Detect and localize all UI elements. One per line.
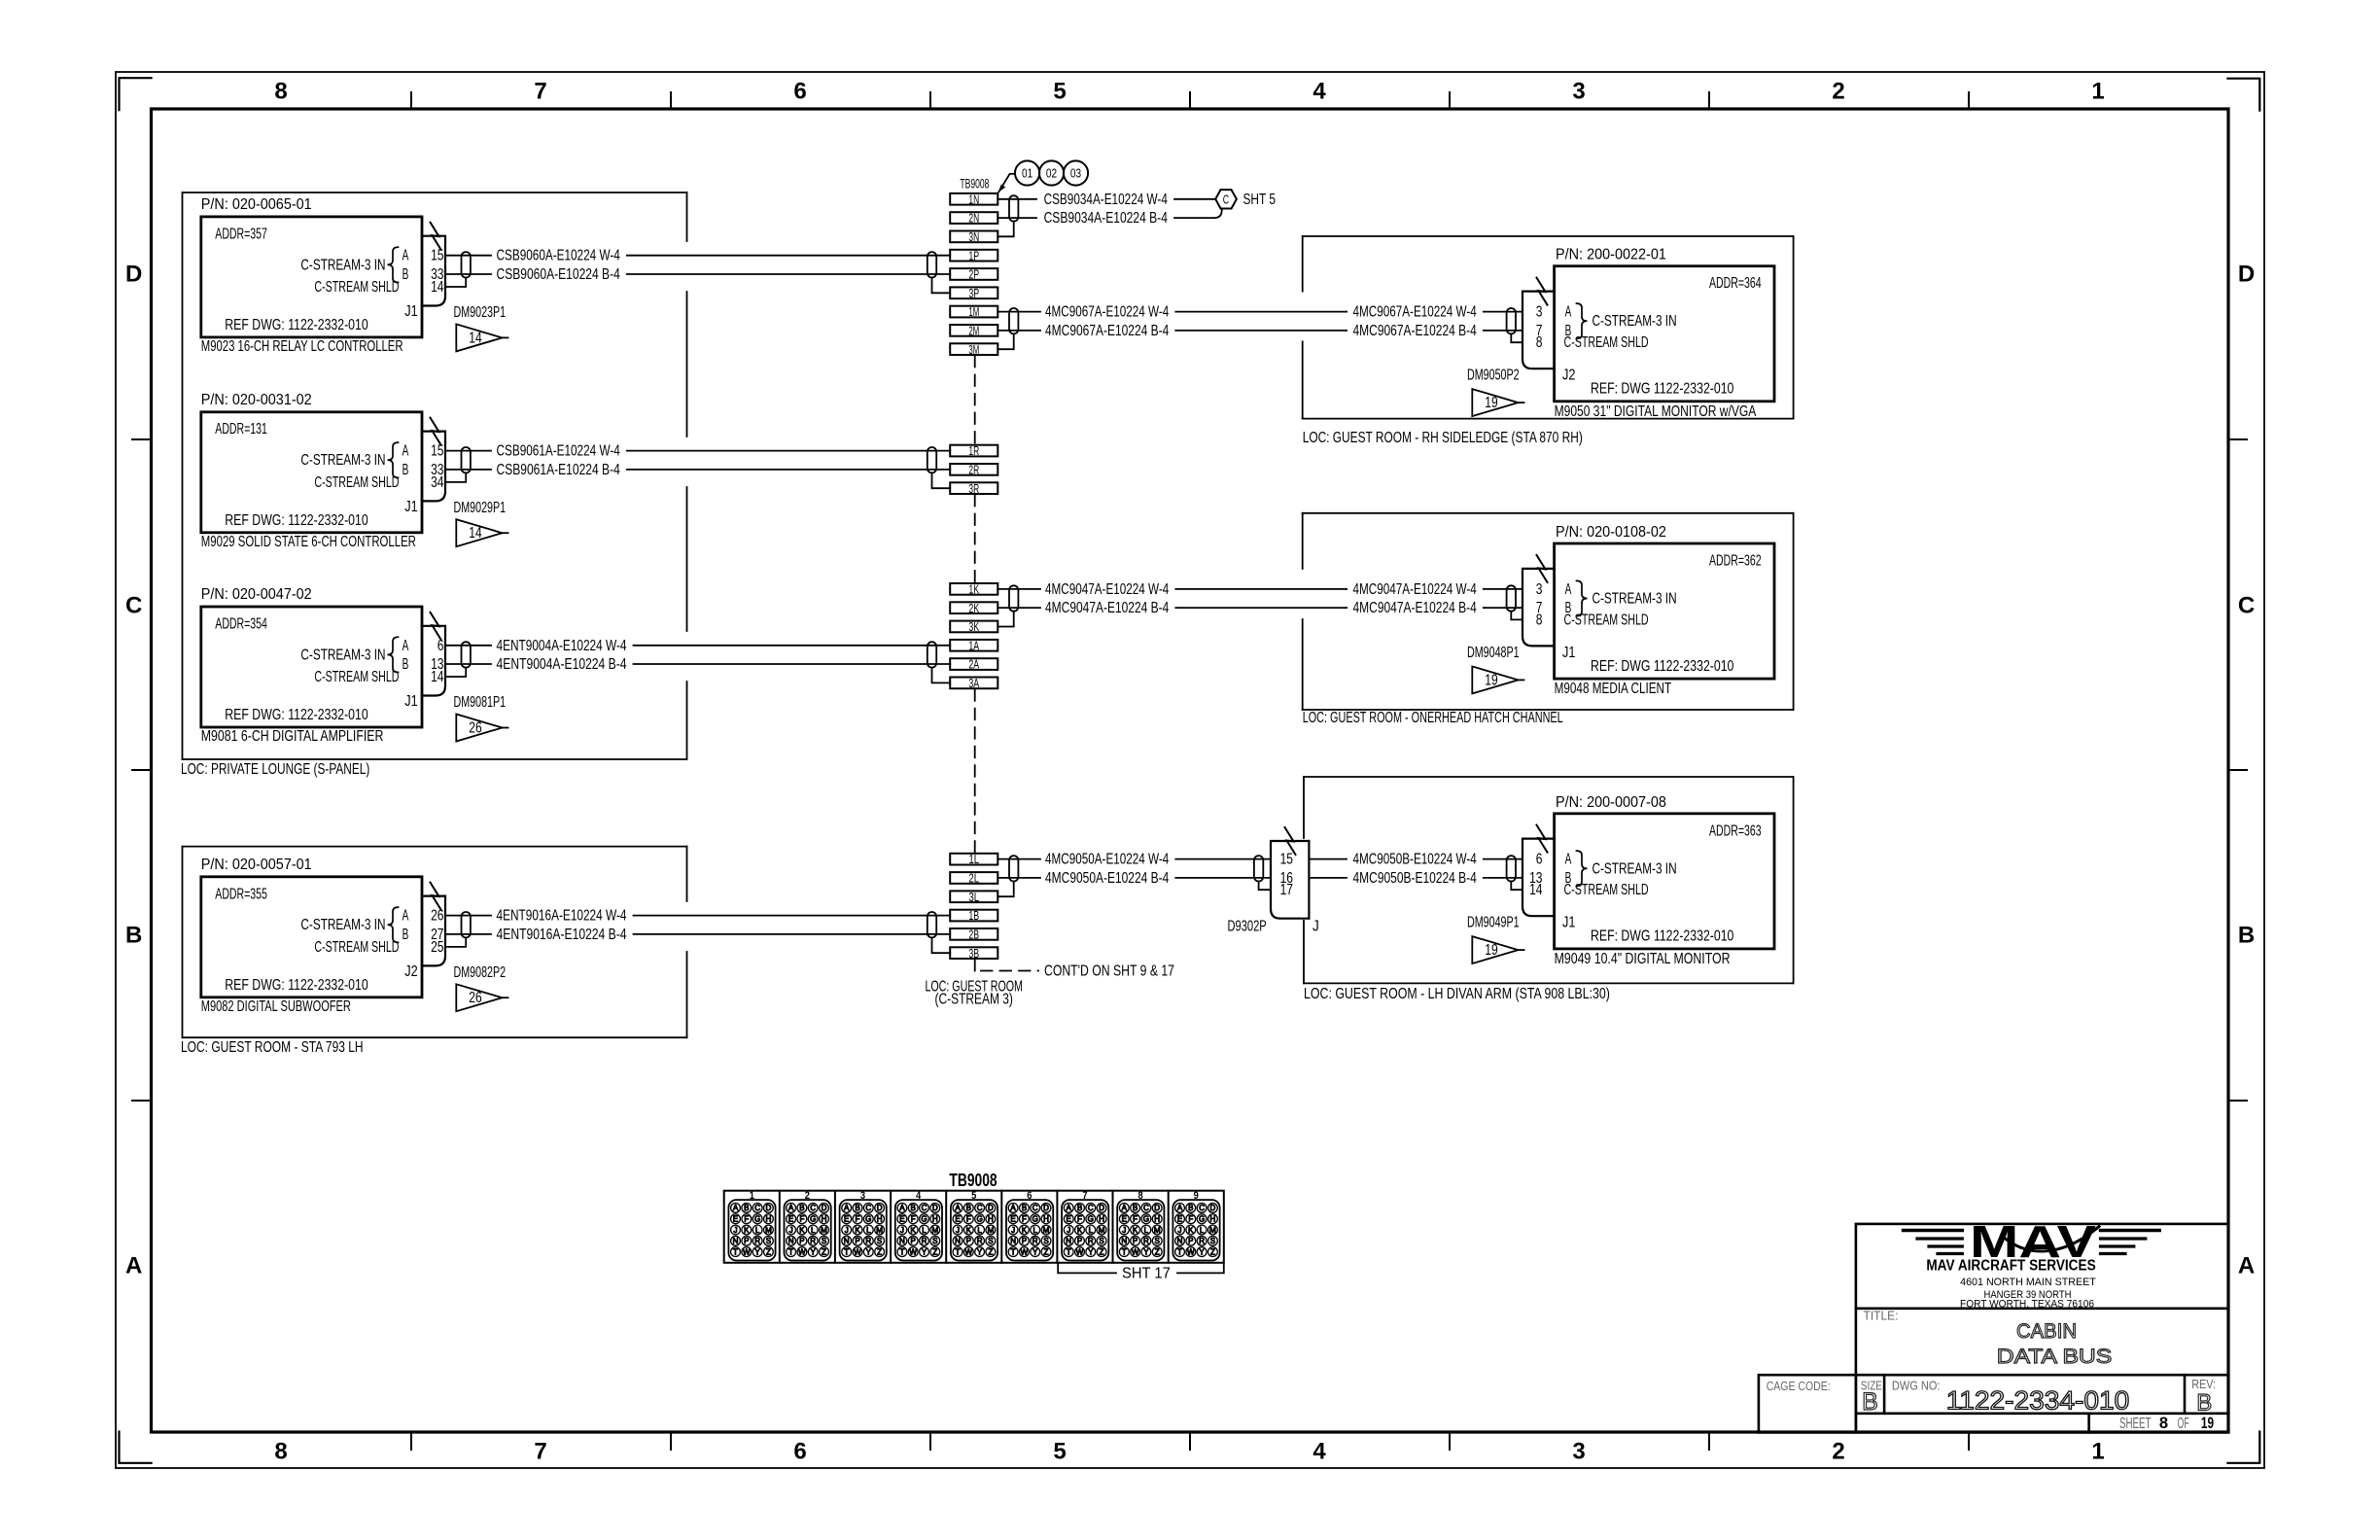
svg-text:C: C (1223, 192, 1229, 206)
svg-text:A: A (1067, 1204, 1072, 1212)
svg-text:F: F (799, 1215, 804, 1224)
terminal 1A (950, 640, 997, 651)
svg-text:L: L (922, 1226, 927, 1235)
svg-text:P: P (855, 1237, 859, 1245)
svg-text:E: E (899, 1215, 904, 1224)
svg-text:G: G (754, 1215, 760, 1224)
svg-text:ADDR=362: ADDR=362 (1709, 553, 1762, 570)
twisted-pair symbol at DM9050P2 (1507, 308, 1516, 333)
svg-text:W: W (1132, 1247, 1139, 1256)
wire 4MC9050A-E10224 W-4 (997, 858, 1040, 860)
svg-text:B: B (2196, 1390, 2212, 1417)
svg-text:C-STREAM SHLD: C-STREAM SHLD (314, 474, 399, 491)
svg-text:F: F (856, 1215, 860, 1224)
shield break zigzag (1537, 555, 1548, 582)
svg-text:H: H (1154, 1215, 1160, 1224)
twisted-pair symbol at DM9049P1 (1507, 856, 1516, 881)
svg-text:D: D (1099, 1204, 1104, 1212)
zone row ticks right border (2228, 438, 2247, 440)
svg-text:N: N (1010, 1237, 1016, 1245)
svg-text:OF: OF (2178, 1416, 2189, 1432)
svg-text:Z: Z (1100, 1247, 1104, 1256)
svg-text:19: 19 (1485, 395, 1497, 411)
svg-text:H: H (822, 1215, 827, 1224)
svg-text:1R: 1R (968, 443, 979, 458)
svg-text:S: S (1155, 1237, 1160, 1245)
svg-text:4MC9050A-E10224 B-4: 4MC9050A-E10224 B-4 (1045, 870, 1170, 887)
svg-text:H: H (877, 1215, 883, 1224)
svg-text:S: S (1099, 1237, 1103, 1245)
terminal 3P (950, 287, 997, 298)
brace (388, 907, 399, 942)
shield break zigzag (431, 223, 441, 250)
svg-text:T: T (1067, 1247, 1071, 1256)
svg-text:Y: Y (1032, 1247, 1038, 1256)
svg-text:1122-2334-010: 1122-2334-010 (1946, 1386, 2130, 1416)
svg-text:K: K (1077, 1226, 1083, 1235)
svg-text:B: B (744, 1204, 749, 1212)
svg-text:K: K (1022, 1226, 1028, 1235)
svg-text:C-STREAM-3 IN: C-STREAM-3 IN (1592, 313, 1677, 330)
wire CSB9034A-E10224 B-4 (997, 217, 1036, 219)
svg-text:C: C (922, 1204, 927, 1212)
circle 02 (1039, 160, 1064, 185)
svg-text:R: R (977, 1237, 983, 1245)
shield/twisted-pair symbol group P (927, 252, 936, 277)
svg-text:8: 8 (1536, 612, 1543, 628)
shield stub (445, 668, 466, 677)
SHT 17 bracket (1058, 1264, 1116, 1274)
svg-text:8: 8 (1536, 334, 1543, 351)
svg-text:REF DWG: 1122-2332-010: REF DWG: 1122-2332-010 (225, 977, 368, 994)
svg-text:A: A (402, 248, 409, 264)
terminal 2K (950, 602, 997, 613)
svg-text:C: C (1088, 1204, 1094, 1212)
svg-text:3N: 3N (968, 229, 979, 244)
svg-text:CONT'D ON SHT 9 & 17: CONT'D ON SHT 9 & 17 (1044, 963, 1174, 980)
svg-text:K: K (1133, 1226, 1138, 1235)
svg-text:H: H (988, 1215, 994, 1224)
circle 03 (1064, 160, 1088, 185)
svg-text:2R: 2R (968, 463, 979, 477)
svg-text:G: G (1199, 1215, 1205, 1224)
svg-text:4: 4 (1312, 1439, 1326, 1465)
svg-text:Z: Z (1210, 1247, 1215, 1256)
svg-text:Y: Y (866, 1247, 872, 1256)
svg-text:19: 19 (1485, 672, 1497, 688)
svg-text:SHEET: SHEET (2119, 1416, 2152, 1432)
svg-text:14: 14 (431, 669, 444, 685)
sheet-ref triangle 19 (1472, 389, 1518, 416)
svg-text:K: K (744, 1226, 750, 1235)
shield wire group B (932, 937, 951, 953)
svg-text:R: R (810, 1237, 816, 1245)
svg-text:TITLE:: TITLE: (1864, 1309, 1899, 1323)
svg-text:C-STREAM-3 IN: C-STREAM-3 IN (300, 452, 385, 469)
svg-text:TB9008: TB9008 (949, 1171, 997, 1190)
svg-text:ADDR=357: ADDR=357 (215, 226, 267, 242)
svg-text:1M: 1M (968, 304, 979, 319)
svg-text:D: D (2238, 262, 2255, 288)
svg-text:ADDR=364: ADDR=364 (1709, 275, 1762, 292)
svg-text:3: 3 (1572, 1439, 1585, 1465)
svg-text:Y: Y (922, 1247, 927, 1256)
connector shell DM9081P1 (422, 626, 445, 696)
svg-text:B: B (2238, 923, 2255, 949)
svg-text:19: 19 (2201, 1415, 2214, 1432)
brace (388, 637, 399, 672)
svg-text:W: W (1076, 1247, 1084, 1256)
svg-text:K: K (799, 1226, 805, 1235)
svg-text:B: B (1077, 1204, 1082, 1212)
svg-text:L: L (1200, 1226, 1205, 1235)
svg-text:T: T (733, 1247, 738, 1256)
logo swoosh (2002, 1227, 2099, 1252)
svg-text:C-STREAM SHLD: C-STREAM SHLD (314, 279, 399, 296)
connector shell DM9082P2 (422, 896, 445, 966)
shield into D9302P pin 17 (1259, 882, 1271, 891)
terminal 3B (950, 947, 997, 959)
svg-text:03: 03 (1070, 167, 1081, 181)
sheet-ref triangle 19 (1472, 936, 1518, 963)
svg-text:J: J (1312, 919, 1319, 935)
svg-text:LOC: GUEST ROOM - ONERHEAD HAT: LOC: GUEST ROOM - ONERHEAD HATCH CHANNEL (1303, 710, 1563, 726)
svg-text:3B: 3B (968, 946, 979, 961)
svg-text:3A: 3A (968, 676, 979, 690)
svg-text:TB9008: TB9008 (960, 176, 989, 191)
svg-text:A: A (899, 1204, 905, 1212)
svg-text:L: L (755, 1226, 760, 1235)
svg-text:N: N (1066, 1237, 1071, 1245)
svg-text:3P: 3P (968, 286, 979, 300)
svg-text:DM9049P1: DM9049P1 (1467, 915, 1520, 931)
svg-text:A: A (125, 1253, 142, 1279)
device box M9048 (1555, 543, 1774, 679)
svg-text:ADDR=363: ADDR=363 (1709, 822, 1762, 839)
shield stub (1511, 882, 1522, 891)
svg-text:MAV AIRCRAFT SERVICES: MAV AIRCRAFT SERVICES (1926, 1258, 2095, 1275)
logo speed lines left (1904, 1229, 1963, 1232)
sheet-ref triangle 19 (1472, 666, 1518, 693)
svg-text:2K: 2K (968, 601, 979, 615)
twisted-pair symbol at D9302P input (1254, 856, 1263, 881)
shield break zigzag (1537, 825, 1548, 853)
svg-text:Y: Y (754, 1247, 760, 1256)
svg-text:1N: 1N (968, 192, 979, 206)
svg-text:G: G (865, 1215, 871, 1224)
terminal 1N (950, 193, 997, 205)
svg-text:4MC9050B-E10224 W-4: 4MC9050B-E10224 W-4 (1353, 852, 1478, 868)
svg-text:P: P (1022, 1237, 1027, 1245)
terminal 2R (950, 464, 997, 475)
svg-text:P/N: 200-0022-01: P/N: 200-0022-01 (1556, 247, 1666, 263)
svg-text:1P: 1P (968, 248, 979, 262)
terminal 1P (950, 250, 997, 262)
svg-text:CSB9060A-E10224 B-4: CSB9060A-E10224 B-4 (497, 266, 621, 283)
svg-text:A: A (788, 1204, 794, 1212)
svg-text:G: G (1088, 1215, 1094, 1224)
sheet-ref triangle 26 (456, 715, 502, 742)
svg-text:C: C (977, 1204, 983, 1212)
svg-text:4601 NORTH MAIN STREET: 4601 NORTH MAIN STREET (1960, 1277, 2096, 1288)
svg-text:F: F (1077, 1215, 1082, 1224)
svg-text:B: B (125, 923, 142, 949)
svg-text:G: G (810, 1215, 816, 1224)
svg-text:A: A (1010, 1204, 1016, 1212)
svg-text:F: F (1022, 1215, 1027, 1224)
svg-text:DM9082P2: DM9082P2 (454, 964, 507, 981)
svg-text:J2: J2 (404, 963, 417, 980)
svg-text:D: D (1210, 1204, 1216, 1212)
svg-text:SHT 5: SHT 5 (1243, 192, 1277, 208)
shield stub (1511, 333, 1522, 342)
terminal 1M (950, 306, 997, 318)
svg-text:A: A (402, 908, 409, 925)
svg-text:J1: J1 (404, 303, 417, 320)
svg-text:J: J (734, 1226, 738, 1235)
svg-text:A: A (2238, 1253, 2255, 1279)
svg-text:1: 1 (2091, 79, 2104, 105)
svg-text:M: M (1043, 1226, 1050, 1235)
svg-text:DM9048P1: DM9048P1 (1467, 645, 1520, 661)
svg-text:A: A (844, 1204, 850, 1212)
svg-text:T: T (1122, 1247, 1127, 1256)
svg-text:4MC9047A-E10224 W-4: 4MC9047A-E10224 W-4 (1045, 581, 1170, 598)
svg-text:DM9050P2: DM9050P2 (1467, 367, 1520, 384)
svg-text:M: M (1099, 1226, 1105, 1235)
svg-text:LOC: GUEST ROOM - RH SIDELEDGE: LOC: GUEST ROOM - RH SIDELEDGE (STA 870 … (1303, 430, 1583, 446)
wire 4MC9047A-E10224 W-4 (terminal side) (997, 588, 1040, 590)
twisted-pair symbol at DM9081P1 (462, 642, 471, 667)
svg-text:25: 25 (431, 939, 443, 956)
title block (1856, 1224, 2228, 1433)
svg-text:J: J (789, 1226, 793, 1235)
svg-text:A: A (1122, 1204, 1128, 1212)
svg-text:K: K (855, 1226, 860, 1235)
svg-text:REF DWG: 1122-2332-010: REF DWG: 1122-2332-010 (225, 512, 368, 529)
svg-text:C-STREAM SHLD: C-STREAM SHLD (1564, 334, 1649, 351)
wire 4MC9067A-E10224 W-4 (terminal side) (997, 311, 1040, 313)
shield stub (445, 472, 466, 482)
shield/twisted-pair symbol group M (1009, 308, 1018, 333)
svg-text:4MC9050A-E10224 W-4: 4MC9050A-E10224 W-4 (1045, 852, 1170, 868)
svg-text:M9081 6-CH DIGITAL AMPLIFIER: M9081 6-CH DIGITAL AMPLIFIER (201, 728, 384, 745)
wire CSB9061A-E10224 B-4 (module side) (445, 469, 491, 471)
brace (388, 442, 399, 477)
svg-text:ADDR=131: ADDR=131 (215, 421, 267, 437)
connector shell DM9029P1 (422, 432, 445, 502)
svg-text:L: L (1144, 1226, 1149, 1235)
wire CSB9060A-E10224 B-4 (module side) (445, 273, 491, 275)
svg-text:Z: Z (1044, 1247, 1049, 1256)
svg-text:P: P (799, 1237, 804, 1245)
svg-text:L: L (811, 1226, 816, 1235)
svg-text:M: M (931, 1226, 938, 1235)
device box M9081 (201, 607, 422, 727)
svg-text:FORT WORTH, TEXAS 76106: FORT WORTH, TEXAS 76106 (1960, 1298, 2094, 1310)
brace (1577, 303, 1588, 338)
svg-text:A: A (402, 638, 409, 654)
svg-text:DM9029P1: DM9029P1 (454, 500, 507, 516)
svg-text:A: A (402, 443, 409, 460)
svg-text:J: J (1011, 1226, 1015, 1235)
shield/twisted-pair symbol group K (1009, 585, 1018, 611)
group enclosure: private lounge (M9023/M9029/M9081) (183, 192, 687, 193)
shield/twisted-pair symbol group L (1009, 856, 1018, 881)
brace (1577, 851, 1588, 886)
svg-text:W: W (1187, 1247, 1195, 1256)
svg-text:4ENT9004A-E10224 W-4: 4ENT9004A-E10224 W-4 (497, 638, 627, 654)
svg-text:A: A (1177, 1204, 1183, 1212)
zone column ticks top border (410, 92, 412, 109)
svg-text:K: K (911, 1226, 917, 1235)
terminal 1L (950, 854, 997, 865)
wire 4ENT9004A-E10224 W-4 (module side) (445, 645, 491, 647)
svg-text:B: B (1188, 1204, 1193, 1212)
svg-text:T: T (788, 1247, 793, 1256)
svg-text:C-STREAM-3 IN: C-STREAM-3 IN (300, 647, 385, 663)
svg-text:CAGE CODE:: CAGE CODE: (1767, 1379, 1831, 1393)
svg-text:T: T (956, 1247, 961, 1256)
terminal 2L (950, 872, 997, 884)
svg-text:S: S (1043, 1237, 1048, 1245)
svg-text:L: L (866, 1226, 871, 1235)
svg-text:4MC9047A-E10224 W-4: 4MC9047A-E10224 W-4 (1353, 581, 1478, 598)
svg-text:D: D (766, 1204, 772, 1212)
svg-text:M: M (1209, 1226, 1216, 1235)
shield wire group L (997, 882, 1013, 897)
svg-text:R: R (754, 1237, 760, 1245)
terminal 3L (950, 891, 997, 902)
svg-text:7: 7 (534, 79, 546, 105)
sheet-ref triangle 26 (456, 984, 502, 1011)
svg-text:2A: 2A (968, 657, 979, 672)
svg-text:Z: Z (766, 1247, 771, 1256)
svg-text:P/N: 020-0108-02: P/N: 020-0108-02 (1556, 524, 1666, 541)
svg-text:E: E (1177, 1215, 1182, 1224)
shield wire group M (997, 333, 1013, 349)
sheet-ref triangle 14 (456, 324, 502, 351)
svg-text:4MC9050B-E10224 B-4: 4MC9050B-E10224 B-4 (1353, 870, 1478, 887)
svg-text:SHT 17: SHT 17 (1122, 1265, 1171, 1281)
svg-text:M: M (821, 1226, 827, 1235)
svg-text:B: B (966, 1204, 971, 1212)
group enclosure: guest room STA 793 (M9082) (183, 846, 687, 848)
svg-text:P/N: 020-0047-02: P/N: 020-0047-02 (201, 586, 312, 603)
svg-text:B: B (1133, 1204, 1137, 1212)
cage code box (1759, 1375, 1856, 1432)
wire 4ENT9004A-E10224 B-4 (module side) (445, 663, 491, 665)
svg-text:2N: 2N (968, 211, 979, 226)
svg-text:C-STREAM-3 IN: C-STREAM-3 IN (300, 917, 385, 933)
shield break zigzag (431, 612, 441, 640)
shield break zigzag (1537, 278, 1548, 305)
svg-text:S: S (766, 1237, 771, 1245)
svg-text:R: R (922, 1237, 927, 1245)
terminal 2M (950, 325, 997, 336)
svg-text:Z: Z (932, 1247, 937, 1256)
svg-text:W: W (965, 1247, 973, 1256)
svg-text:4ENT9016A-E10224 W-4: 4ENT9016A-E10224 W-4 (497, 908, 627, 925)
svg-text:Y: Y (1199, 1247, 1205, 1256)
svg-text:Y: Y (811, 1247, 817, 1256)
svg-text:1: 1 (2091, 1439, 2104, 1465)
svg-text:D: D (877, 1204, 883, 1212)
svg-text:E: E (1010, 1215, 1015, 1224)
svg-text:6: 6 (793, 79, 806, 105)
svg-text:CABIN: CABIN (2016, 1320, 2077, 1343)
svg-text:LOC: GUEST ROOM - STA 793 LH: LOC: GUEST ROOM - STA 793 LH (181, 1039, 364, 1056)
svg-text:L: L (1032, 1226, 1037, 1235)
svg-text:C-STREAM-3 IN: C-STREAM-3 IN (1592, 860, 1677, 877)
svg-text:DATA BUS: DATA BUS (1997, 1346, 2112, 1368)
svg-text:4MC9047A-E10224 B-4: 4MC9047A-E10224 B-4 (1045, 600, 1170, 616)
svg-text:Y: Y (977, 1247, 983, 1256)
svg-text:J: J (845, 1226, 849, 1235)
svg-text:J1: J1 (1562, 645, 1575, 661)
svg-text:15: 15 (1280, 852, 1293, 868)
svg-text:N: N (1121, 1237, 1127, 1245)
svg-text:2P: 2P (968, 267, 979, 282)
wire CSB9061A-E10224 W-4 (module side) (445, 450, 491, 452)
wire CSB9034A-E10224 W-4 (997, 198, 1036, 200)
svg-text:L: L (977, 1226, 982, 1235)
svg-text:W: W (854, 1247, 861, 1256)
svg-text:4ENT9004A-E10224 B-4: 4ENT9004A-E10224 B-4 (497, 656, 627, 673)
svg-text:P: P (1188, 1237, 1193, 1245)
zone column ticks bottom border (410, 1432, 412, 1450)
terminal 1R (950, 445, 997, 457)
shield break zigzag (431, 883, 441, 910)
svg-text:B: B (1862, 1388, 1878, 1416)
svg-text:T: T (844, 1247, 849, 1256)
svg-text:F: F (911, 1215, 916, 1224)
shield wire group P (932, 278, 951, 294)
terminal 1K (950, 583, 997, 595)
wire 4ENT9016A-E10224 B-4 (module side) (445, 933, 491, 935)
svg-text:LOC: GUEST ROOM - LH DIVAN ARM: LOC: GUEST ROOM - LH DIVAN ARM (STA 908 … (1304, 986, 1610, 1002)
svg-text:J: J (1122, 1226, 1126, 1235)
svg-text:S: S (877, 1237, 882, 1245)
svg-text:26: 26 (469, 720, 481, 737)
corner trim mark bottom-right (2227, 1432, 2259, 1463)
group enclosure: overhead hatch (M9048) (1303, 512, 1794, 514)
svg-text:3: 3 (1536, 304, 1543, 321)
svg-text:8: 8 (274, 1439, 287, 1465)
svg-text:D: D (822, 1204, 827, 1212)
svg-text:R: R (1088, 1237, 1094, 1245)
terminal 3R (950, 482, 997, 494)
svg-text:Z: Z (877, 1247, 882, 1256)
svg-text:C-STREAM SHLD: C-STREAM SHLD (314, 939, 399, 956)
svg-text:W: W (1021, 1247, 1029, 1256)
device box M9023 (201, 217, 422, 337)
svg-text:K: K (966, 1226, 972, 1235)
connector shell DM9049P1 (1522, 839, 1555, 917)
svg-text:H: H (1210, 1215, 1216, 1224)
svg-text:14: 14 (1529, 882, 1543, 898)
svg-text:J: J (1067, 1226, 1070, 1235)
svg-text:REF: DWG 1122-2332-010: REF: DWG 1122-2332-010 (1591, 928, 1734, 945)
svg-text:P/N: 020-0057-01: P/N: 020-0057-01 (201, 857, 312, 873)
shield stub (445, 278, 466, 288)
svg-text:P: P (966, 1237, 971, 1245)
svg-text:B: B (855, 1204, 859, 1212)
sheet-ref triangle 14 (456, 519, 502, 546)
group enclosure: LH divan arm (M9049) (1304, 776, 1794, 778)
wire 4MC9047A-E10224 B-4 (terminal side) (997, 607, 1040, 609)
svg-text:B: B (402, 266, 409, 283)
